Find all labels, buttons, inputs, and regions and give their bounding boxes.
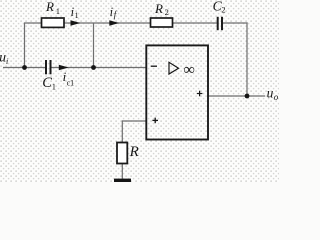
svg-text:R: R xyxy=(45,0,54,14)
svg-text:C: C xyxy=(42,75,52,91)
capacitor C1 xyxy=(45,60,47,74)
ground xyxy=(114,179,131,182)
capacitor C2 xyxy=(217,17,219,30)
svg-text:c1: c1 xyxy=(67,79,75,88)
svg-text:i: i xyxy=(6,57,8,66)
current arrow ic1 xyxy=(59,65,69,70)
svg-text:R: R xyxy=(154,1,163,16)
svg-text:2: 2 xyxy=(165,7,169,17)
node dot output xyxy=(245,94,250,99)
wire top horizontal between R2 and C2 xyxy=(173,22,218,24)
op-amp U1 xyxy=(146,45,208,139)
resistor R xyxy=(117,143,127,164)
wire from C2 to right corner xyxy=(222,22,248,24)
node dot input xyxy=(22,65,27,70)
node dot middle xyxy=(91,65,96,70)
wire vertical feedback tap xyxy=(93,23,95,68)
op-amp output plus sign xyxy=(197,91,203,97)
svg-text:2: 2 xyxy=(221,5,225,15)
wire top horizontal between R1 and R2 xyxy=(64,22,151,24)
wire middle horizontal left of C1 xyxy=(3,67,46,69)
resistor R2 xyxy=(151,18,173,27)
wire output horizontal xyxy=(208,95,265,97)
wire noninverting vertical to R xyxy=(121,120,123,142)
wire left vertical xyxy=(24,22,26,67)
svg-text:1: 1 xyxy=(56,6,60,16)
wire noninverting input horizontal xyxy=(122,120,146,122)
svg-text:o: o xyxy=(274,92,279,102)
wire R to ground xyxy=(121,164,123,180)
resistor R1 xyxy=(42,18,65,27)
svg-text:u: u xyxy=(267,86,274,101)
svg-text:1: 1 xyxy=(75,11,79,20)
svg-text:R: R xyxy=(129,144,139,160)
op-amp noninverting plus sign xyxy=(152,118,158,124)
wire middle horizontal C1 to op-amp xyxy=(51,67,147,69)
svg-text:∞: ∞ xyxy=(183,62,194,79)
op-amp gain triangle xyxy=(169,62,179,74)
current arrow i1 xyxy=(71,20,81,25)
current arrow if xyxy=(109,20,119,25)
wire top horizontal left of R1 xyxy=(25,22,42,24)
svg-text:1: 1 xyxy=(52,82,56,92)
wire right vertical from C2 down xyxy=(246,22,248,96)
op-amp minus input sign xyxy=(151,65,157,67)
